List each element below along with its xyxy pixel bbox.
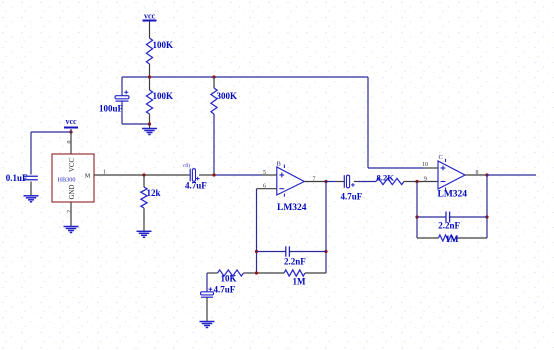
- node vcc-mic junction: [69, 130, 72, 133]
- node fb-cap right C: [485, 215, 488, 218]
- resistor R6 1M (feedback B): [257, 270, 327, 287]
- resistor R4 12k: [141, 175, 161, 231]
- pin 0 (mic VCC pin): [67, 132, 76, 172]
- svg-text:c0): c0): [183, 162, 190, 169]
- resistor R5 10K: [207, 270, 257, 284]
- svg-text:C: C: [439, 154, 443, 161]
- ground (bias divider): [142, 124, 157, 135]
- svg-text:M: M: [85, 174, 91, 180]
- svg-text:100K: 100K: [153, 40, 174, 50]
- capacitor C5 4.7uF (gain-set): [201, 273, 236, 297]
- pin 6 (inverting input): [257, 184, 277, 190]
- node bias-junction at R1/R2: [148, 75, 151, 78]
- wire feedback left vertical C: [416, 182, 418, 239]
- pin 1 (mic output M): [85, 170, 112, 180]
- wire 100uF to ground junction: [122, 123, 150, 125]
- svg-text:7: 7: [313, 177, 316, 183]
- svg-text:0: 0: [67, 141, 73, 144]
- resistor R8 1M (feedback C): [417, 234, 487, 244]
- svg-text:GND: GND: [69, 185, 76, 200]
- op-amp U1C LM324: [438, 154, 468, 200]
- capacitor C1 100uF (bias bypass): [99, 77, 129, 124]
- svg-text:4.7uF: 4.7uF: [341, 192, 363, 202]
- power vcc net (mic): [64, 117, 78, 132]
- wire bias rail: [122, 76, 368, 78]
- svg-text:1M: 1M: [293, 277, 307, 287]
- node fb-cap left B: [255, 250, 258, 253]
- ground (mic): [64, 227, 79, 233]
- wire output to right edge: [487, 174, 536, 176]
- capacitor C7 2.2nF (feedback C): [417, 212, 487, 231]
- svg-text:1: 1: [103, 170, 106, 176]
- svg-text:1M: 1M: [446, 234, 460, 244]
- capacitor C2 0.1uF: [6, 173, 38, 183]
- svg-text:B: B: [277, 161, 282, 168]
- wire feedback right vertical C: [486, 175, 488, 238]
- resistor R2 100K (lower bias): [146, 77, 173, 124]
- svg-text:10: 10: [422, 162, 428, 168]
- pin 9 (inverting input): [417, 177, 438, 183]
- node output-B junction: [324, 180, 327, 183]
- node output-C junction: [485, 173, 488, 176]
- svg-text:2.2nF: 2.2nF: [438, 221, 460, 231]
- pin 7 (output): [304, 177, 326, 183]
- ground (0.1uF): [24, 182, 39, 202]
- svg-text:12k: 12k: [147, 188, 161, 198]
- wire vcc to decoupling cap: [31, 132, 71, 175]
- ground (4.7uF gain): [200, 297, 215, 327]
- op-amp U1B LM324: [277, 161, 307, 214]
- svg-text:0.1uF: 0.1uF: [6, 173, 28, 183]
- svg-text:100uF: 100uF: [99, 104, 124, 114]
- pin 2 (mic GND pin): [67, 185, 76, 226]
- svg-text:2.2nF: 2.2nF: [284, 257, 306, 267]
- node 300K junction: [212, 173, 215, 176]
- pin 8 (output): [465, 170, 487, 176]
- svg-text:300K: 300K: [217, 91, 238, 101]
- svg-text:5: 5: [263, 170, 266, 176]
- resistor R3 300K: [211, 77, 237, 175]
- svg-text:100K: 100K: [153, 91, 174, 101]
- svg-text:LM324: LM324: [438, 190, 468, 200]
- svg-text:LM324: LM324: [277, 203, 307, 213]
- node pin9 junction: [415, 180, 418, 183]
- svg-text:vcc: vcc: [144, 12, 156, 21]
- node fb-cap right B: [324, 250, 327, 253]
- node 10K junction: [255, 271, 258, 274]
- mic module U2 HB300: [52, 154, 94, 202]
- pin 5 (non-inverting input): [262, 170, 277, 176]
- resistor R1 100K (upper bias): [146, 28, 173, 78]
- svg-text:2: 2: [67, 210, 73, 213]
- svg-text:4.7uF: 4.7uF: [214, 285, 236, 295]
- wire feedback right vertical B: [325, 182, 327, 274]
- svg-text:8.2K: 8.2K: [377, 173, 395, 183]
- node bias-junction at R3: [212, 75, 215, 78]
- svg-text:10K: 10K: [220, 274, 236, 284]
- ground (12k): [137, 231, 152, 237]
- wire bias to pin10 vertical: [368, 77, 424, 168]
- svg-text:vcc: vcc: [65, 117, 77, 126]
- power vcc net (top): [143, 12, 157, 28]
- node 12k junction: [142, 173, 145, 176]
- node ground-junction: [148, 122, 151, 125]
- svg-text:8: 8: [476, 170, 479, 176]
- capacitor C6 4.7uF (coupling): [326, 175, 363, 201]
- svg-text:9: 9: [424, 177, 427, 183]
- svg-text:VCC: VCC: [69, 158, 76, 172]
- svg-text:HB300: HB300: [58, 177, 76, 184]
- pin 10 (non-inverting input): [422, 162, 438, 168]
- svg-text:6: 6: [263, 184, 266, 190]
- wire mic output to C3: [112, 174, 186, 176]
- capacitor C3 4.7uF (input coupling): [183, 162, 207, 191]
- capacitor C4 2.2nF (feedback B): [257, 246, 327, 266]
- node fb-cap left C: [415, 215, 418, 218]
- wire feedback left vertical B: [256, 189, 258, 273]
- svg-text:4.7uF: 4.7uF: [185, 181, 207, 191]
- wire C3 to opamp: [199, 174, 262, 176]
- resistor R7 8.2K: [358, 173, 417, 185]
